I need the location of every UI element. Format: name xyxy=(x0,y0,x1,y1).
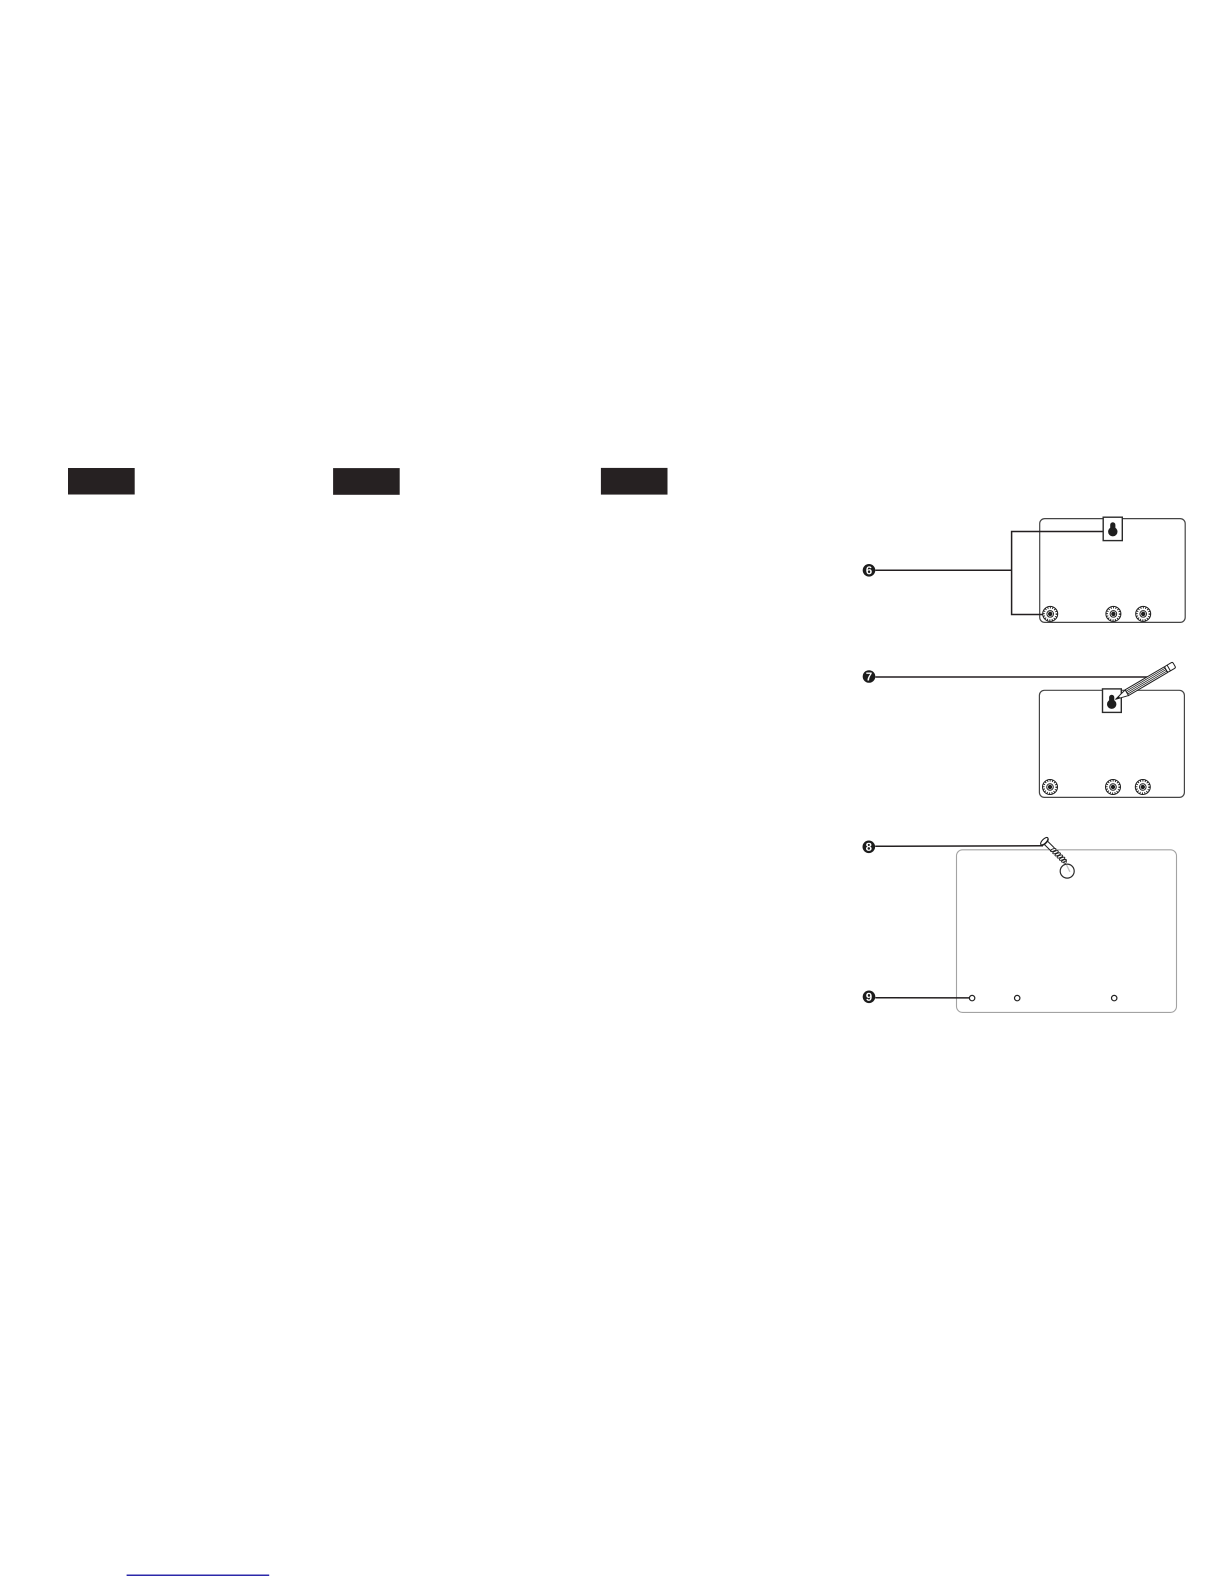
foot 7b xyxy=(1106,780,1121,795)
back panel (diagram 6) xyxy=(1040,519,1186,623)
keyhole slot 7 xyxy=(1107,695,1116,709)
keyhole plate 7 xyxy=(1103,689,1122,713)
step label box 2 xyxy=(333,468,400,495)
pilot hole 9b xyxy=(1015,995,1020,1000)
bracket 6 xyxy=(1012,532,1104,615)
foot 6a xyxy=(1043,606,1058,621)
pilot hole 9a xyxy=(969,995,974,1000)
callout line 8 xyxy=(875,845,1043,848)
keyhole slot 6 xyxy=(1108,522,1117,536)
callout badge 8 xyxy=(863,841,876,854)
foot 6b xyxy=(1106,606,1121,621)
anchor hole shading xyxy=(1067,865,1070,872)
keyhole plate 6 xyxy=(1103,517,1122,540)
foot 7c xyxy=(1135,780,1150,795)
callout line 9 xyxy=(875,997,969,999)
callout badge 7 xyxy=(863,670,876,683)
callout line 6 xyxy=(875,569,1011,571)
pilot hole 9c xyxy=(1112,995,1117,1000)
step label box 3 xyxy=(601,468,668,495)
back panel (diagram 7) xyxy=(1039,690,1184,797)
callout badge 9 xyxy=(863,991,876,1004)
anchor hole xyxy=(1060,864,1074,878)
callout badge 6 xyxy=(863,564,876,577)
screw xyxy=(1039,836,1069,866)
step label box 1 xyxy=(68,468,135,495)
foot 6c xyxy=(1136,606,1151,621)
pencil xyxy=(1114,662,1176,702)
foot 7a xyxy=(1043,780,1058,795)
footnote link underline xyxy=(127,1574,270,1576)
wall plate xyxy=(957,850,1177,1013)
callout line 7 xyxy=(875,676,1151,678)
